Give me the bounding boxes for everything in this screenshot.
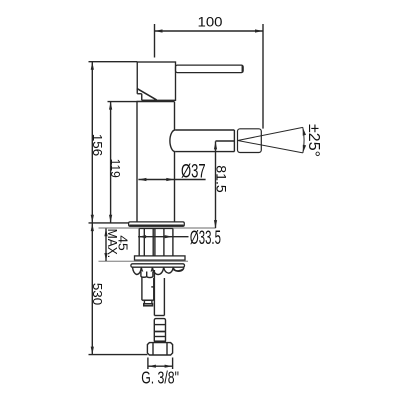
svg-text:156: 156 [90, 134, 105, 156]
dimension G 3/8 [148, 358, 173, 370]
aerator [238, 129, 262, 153]
mounting flange [129, 222, 185, 226]
dimension 119 [109, 102, 112, 223]
svg-text:G. 3/8": G. 3/8" [141, 368, 179, 388]
dimension 45 MAX [104, 228, 107, 261]
extension line nut bottom (530) [89, 354, 148, 356]
washer [135, 256, 186, 260]
extension line flange top [89, 222, 129, 224]
dimension 156 [91, 62, 94, 223]
svg-text:81.5: 81.5 [213, 165, 228, 193]
dimension Ø33.5 [138, 235, 188, 238]
angle arc ±25° [303, 127, 304, 152]
svg-text:Ø33.5: Ø33.5 [190, 227, 221, 249]
handle block [136, 62, 175, 101]
faucet body [137, 102, 175, 222]
threaded shank [139, 229, 173, 256]
svg-text:119: 119 [108, 159, 123, 178]
supply pipe [154, 270, 164, 316]
deck bottom line (grey) [99, 260, 189, 262]
threaded stud with end nut [142, 277, 154, 306]
ribbed hose connector [154, 319, 165, 343]
dimension 100 [155, 24, 264, 129]
dimension Ø37 [138, 178, 205, 181]
spout [170, 130, 234, 152]
spray cone lines [238, 127, 303, 152]
extension line body top [108, 101, 138, 103]
svg-text:100: 100 [198, 14, 223, 30]
star locking nut [131, 264, 185, 278]
lever handle [176, 65, 244, 73]
svg-text:±25°: ±25° [305, 124, 322, 157]
svg-text:MAX.: MAX. [105, 229, 119, 259]
extension line handle top [89, 61, 138, 63]
dimension 81.5 with spout axis extension [214, 141, 235, 228]
svg-text:530: 530 [90, 283, 105, 305]
deck top line (grey) [99, 227, 216, 229]
dimension 530 [91, 223, 94, 355]
svg-text:Ø37: Ø37 [181, 162, 206, 183]
star nut teeth [141, 272, 147, 278]
G3/8 connection nut [147, 343, 172, 355]
